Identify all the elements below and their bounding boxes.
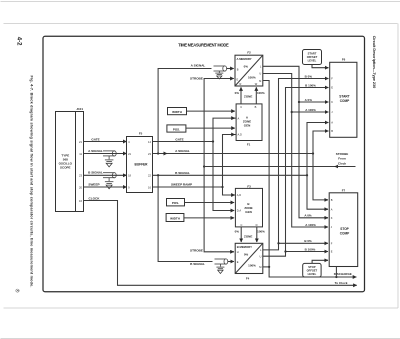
svg-text:0%: 0% <box>235 91 240 95</box>
svg-text:B 0%: B 0% <box>305 75 313 79</box>
svg-text:14: 14 <box>148 140 151 144</box>
svg-text:SWEEP: SWEEP <box>88 183 99 187</box>
svg-text:J101: J101 <box>76 107 83 111</box>
coax connector on A signal <box>103 151 116 160</box>
svg-text:GEN: GEN <box>245 210 252 214</box>
ground below top coax <box>215 73 223 79</box>
svg-text:L: L <box>260 248 262 252</box>
svg-text:GATE: GATE <box>175 137 183 141</box>
svg-text:LEVEL: LEVEL <box>308 272 317 276</box>
svg-text:A 0%: A 0% <box>305 98 313 102</box>
svg-text:LEVEL: LEVEL <box>308 58 317 62</box>
svg-text:100%: 100% <box>257 91 265 95</box>
svg-text:GATE: GATE <box>91 137 99 141</box>
connector J101 <box>76 112 84 212</box>
B zone generator F3 <box>235 188 262 227</box>
svg-text:B: B <box>331 198 333 202</box>
zone wires B zone gen to B memory <box>240 227 242 242</box>
wire B 0% from B memory L <box>263 79 329 250</box>
svg-text:20: 20 <box>79 185 82 189</box>
svg-text:STROBE: STROBE <box>336 152 349 156</box>
wire B SIGNAL scope to buffer <box>84 174 127 176</box>
svg-text:START: START <box>308 51 317 55</box>
coax connector bottom B signal <box>215 259 228 267</box>
svg-text:22: 22 <box>148 174 151 178</box>
svg-text:100%: 100% <box>257 230 265 234</box>
start offset level box <box>303 50 322 65</box>
branch B 0% to stop comp <box>279 242 328 244</box>
junction A signal riser up <box>157 152 159 154</box>
wire CLOCK scope to bottom run <box>84 201 357 286</box>
svg-text:ZONE: ZONE <box>244 95 252 99</box>
svg-text:B SIGNAL: B SIGNAL <box>190 262 205 266</box>
coax connector on B signal <box>103 173 116 182</box>
svg-text:23: 23 <box>148 152 151 156</box>
svg-text:F3: F3 <box>247 185 251 189</box>
wire GATE buffer to zone generators <box>153 141 214 143</box>
svg-text:WIDTH: WIDTH <box>172 110 182 114</box>
wire pos to B zone gen <box>185 202 235 204</box>
svg-text:C: C <box>240 223 242 227</box>
svg-text:L: L <box>260 65 262 69</box>
svg-text:U: U <box>260 255 262 259</box>
svg-text:STOP: STOP <box>308 265 315 269</box>
svg-text:A SIGNAL: A SIGNAL <box>88 149 103 153</box>
svg-text:STROBE: STROBE <box>190 77 203 81</box>
wire B memory M to discharge <box>263 266 269 268</box>
svg-text:A MEMORY: A MEMORY <box>237 57 252 61</box>
svg-text:GEN: GEN <box>244 124 251 128</box>
buffer U F5 <box>127 137 153 193</box>
svg-text:F: F <box>331 77 333 81</box>
svg-text:E: E <box>237 260 239 264</box>
ground below bottom coax <box>216 267 224 273</box>
svg-text:F5: F5 <box>139 132 143 136</box>
svg-text:R: R <box>240 82 242 86</box>
wire width to A zone gen <box>187 110 235 112</box>
svg-text:C: C <box>240 105 242 109</box>
svg-text:D,A: D,A <box>237 209 242 213</box>
svg-text:A,D: A,D <box>238 133 242 137</box>
svg-text:21: 21 <box>79 140 82 144</box>
svg-text:J: J <box>331 110 333 114</box>
stop comp discharge drop <box>335 267 337 278</box>
junction gate riser <box>212 140 214 142</box>
svg-text:TIME MEASUREMENT MODE: TIME MEASUREMENT MODE <box>178 43 229 48</box>
stop comparator F7 <box>329 193 358 267</box>
svg-text:B 0%: B 0% <box>304 239 312 243</box>
svg-text:A 0%: A 0% <box>304 214 312 218</box>
svg-text:D: D <box>256 223 258 227</box>
svg-text:A: A <box>331 207 333 211</box>
svg-text:STROBE: STROBE <box>190 248 203 252</box>
svg-text:0%: 0% <box>244 252 249 256</box>
A signal riser to top <box>158 69 211 154</box>
svg-text:16: 16 <box>79 199 82 203</box>
coax connector top A signal <box>214 66 227 73</box>
svg-text:A SIGNAL: A SIGNAL <box>191 64 206 68</box>
svg-text:F4: F4 <box>246 276 250 280</box>
pot POS upper <box>167 125 186 132</box>
branch A 100% to start comp <box>292 111 329 113</box>
svg-text:J: J <box>331 225 333 229</box>
svg-text:B SIGNAL: B SIGNAL <box>175 171 190 175</box>
svg-text:A 100%: A 100% <box>305 108 316 112</box>
svg-text:B SIGNAL: B SIGNAL <box>88 171 103 175</box>
svg-text:F7: F7 <box>342 189 346 193</box>
svg-text:16: 16 <box>148 185 151 189</box>
wire SWEEP RAMP buffer to zone generators <box>153 186 223 188</box>
svg-text:POS.: POS. <box>173 127 180 131</box>
svg-text:Clock: Clock <box>338 161 347 165</box>
figure border frame <box>43 36 365 291</box>
svg-text:E: E <box>331 86 333 90</box>
svg-text:18: 18 <box>128 174 131 178</box>
wire stop offset to stop comp <box>312 260 328 263</box>
svg-text:A SIGNAL: A SIGNAL <box>175 149 190 153</box>
oscilloscope block TYPE 568 <box>56 112 76 212</box>
wire start offset to start comp <box>312 65 328 68</box>
branch A 0% to start comp <box>299 101 328 103</box>
svg-text:CLOCK: CLOCK <box>89 196 101 200</box>
svg-text:WIDTH: WIDTH <box>170 216 180 220</box>
svg-text:K: K <box>331 216 333 220</box>
junction strobe riser / strobe from clock <box>203 165 205 167</box>
pot POS lower <box>167 199 185 206</box>
svg-text:F6: F6 <box>342 58 346 62</box>
svg-text:U: U <box>259 72 261 76</box>
wire A 0% from A memory L <box>263 66 328 218</box>
wire SWEEP scope to buffer <box>84 186 127 188</box>
svg-text:ZONE: ZONE <box>244 235 252 239</box>
wire width to B zone gen <box>184 217 234 219</box>
svg-text:4-2: 4-2 <box>15 37 21 46</box>
B signal riser to comparators <box>307 123 328 210</box>
wire A SIGNAL scope to buffer <box>84 153 127 155</box>
zone wires A zone gen to A memory <box>240 87 242 104</box>
svg-text:B 100%: B 100% <box>305 247 316 251</box>
svg-text:OFFSET: OFFSET <box>307 268 318 272</box>
wire B SIGNAL buffer to comp riser <box>153 174 308 176</box>
svg-text:B: B <box>255 105 257 109</box>
svg-text:A,D: A,D <box>237 193 241 197</box>
wire pos to A zone gen <box>186 127 235 129</box>
svg-text:START: START <box>339 95 349 99</box>
svg-text:COMP: COMP <box>340 99 350 103</box>
svg-text:M: M <box>259 265 261 269</box>
svg-text:Fig. 4-7. Block diagram showin: Fig. 4-7. Block diagram showing signal f… <box>29 76 33 288</box>
sweep riser <box>223 135 236 196</box>
svg-text:A: A <box>238 116 240 120</box>
svg-text:H: H <box>237 250 239 254</box>
svg-text:100%: 100% <box>248 75 256 79</box>
svg-text:F2: F2 <box>247 50 251 54</box>
svg-text:B: B <box>237 68 239 72</box>
ground below B signal coax <box>105 182 114 189</box>
svg-text:0%: 0% <box>244 64 249 68</box>
svg-text:11: 11 <box>79 152 82 156</box>
svg-text:B: B <box>331 129 333 133</box>
svg-text:100%: 100% <box>248 263 256 267</box>
svg-text:B MEMORY: B MEMORY <box>237 245 252 249</box>
svg-text:E: E <box>331 250 333 254</box>
B memory F4 <box>235 243 263 273</box>
stop offset level box <box>303 263 321 277</box>
svg-text:SCOPE: SCOPE <box>60 165 71 169</box>
pot WIDTH lower <box>166 214 184 222</box>
ground below A signal coax <box>105 160 114 167</box>
svg-text:K: K <box>331 100 333 104</box>
svg-text:COMP: COMP <box>340 232 350 236</box>
strobe from clock line <box>204 166 355 168</box>
svg-text:®: ® <box>14 289 21 293</box>
svg-text:A 100%: A 100% <box>305 223 316 227</box>
junction B signal riser down <box>157 174 159 176</box>
svg-text:A: A <box>331 121 333 125</box>
wire GATE scope to buffer <box>84 141 127 143</box>
start comparator F6 <box>330 62 357 137</box>
svg-text:STOP: STOP <box>340 227 349 231</box>
svg-text:4: 4 <box>128 140 130 144</box>
A zone generator F1 <box>236 104 262 141</box>
svg-text:From: From <box>338 157 346 161</box>
A memory F2 <box>235 55 263 86</box>
svg-text:9: 9 <box>128 185 130 189</box>
wire A 100% from A memory U <box>263 74 328 228</box>
strobe riser <box>204 79 234 252</box>
svg-text:OFFSET: OFFSET <box>307 55 318 59</box>
B signal riser to bottom <box>158 175 212 261</box>
svg-text:Circuit Description—Type 230: Circuit Description—Type 230 <box>372 36 376 88</box>
wire A SIGNAL buffer to start comp riser <box>153 153 314 155</box>
svg-text:To Clock: To Clock <box>335 281 348 285</box>
svg-text:B 100%: B 100% <box>305 84 316 88</box>
pot WIDTH upper <box>168 108 187 115</box>
svg-text:BUFFER: BUFFER <box>135 162 149 166</box>
A signal riser to comparators <box>313 131 328 200</box>
wire B 100% from B memory U <box>263 88 329 257</box>
svg-text:SWEEP RAMP: SWEEP RAMP <box>171 183 192 187</box>
svg-text:23: 23 <box>79 174 82 178</box>
svg-text:0%: 0% <box>235 230 240 234</box>
svg-text:E: E <box>237 77 239 81</box>
junction sweep riser <box>221 186 223 188</box>
svg-text:M: M <box>259 79 261 83</box>
svg-text:F: F <box>331 242 333 246</box>
gate riser <box>213 118 236 210</box>
branch B 100% to stop comp <box>286 251 328 253</box>
svg-text:POS.: POS. <box>172 201 179 205</box>
svg-text:21: 21 <box>128 152 131 156</box>
svg-text:F1: F1 <box>247 143 251 147</box>
discharge wire from A memory M and B memory M <box>263 81 357 278</box>
